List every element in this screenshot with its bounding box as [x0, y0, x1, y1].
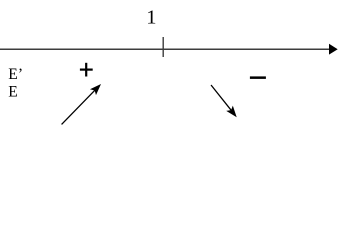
falling arrow (right, decreasing) — [208, 82, 240, 119]
tick mark at x=1 — [162, 37, 164, 57]
number line axis — [0, 48, 330, 50]
svg-text:E’: E’ — [8, 66, 23, 83]
svg-text:1: 1 — [146, 7, 156, 29]
axis arrowhead — [329, 44, 338, 55]
svg-text:E: E — [8, 83, 18, 100]
rising arrow (left, increasing) — [59, 81, 104, 127]
plus sign — [80, 63, 93, 77]
minus sign — [250, 76, 266, 79]
